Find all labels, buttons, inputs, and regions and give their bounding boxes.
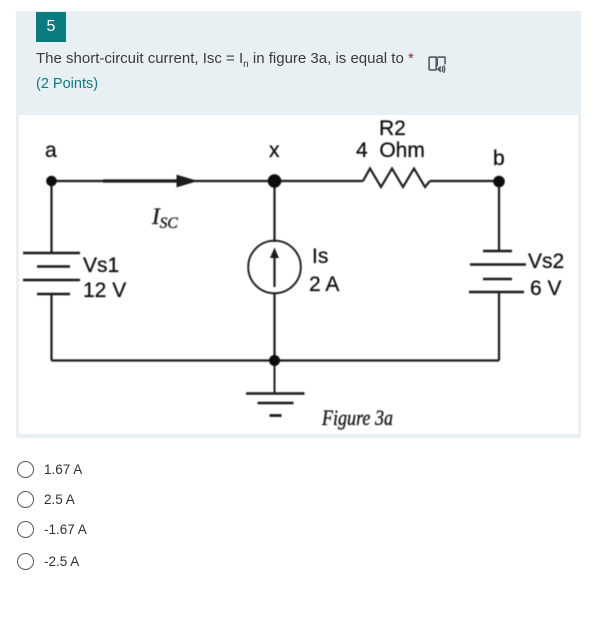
option 1 radio — [17, 461, 517, 478]
current source Is (circle with up arrow) — [248, 241, 301, 294]
svg-text:4 Ohm: 4 Ohm — [356, 139, 425, 162]
svg-text:Vs1: Vs1 — [83, 254, 119, 277]
option 2 radio — [17, 491, 517, 508]
points label — [36, 73, 98, 95]
wire: node b down to Vs2 top — [498, 181, 500, 251]
ground — [246, 361, 305, 416]
option 4 radio — [17, 553, 517, 570]
battery Vs1 — [23, 253, 80, 294]
svg-text:b: b — [493, 147, 505, 170]
figure white box — [19, 115, 578, 434]
question text — [36, 48, 456, 76]
wire: current source bottom to bottom rail — [273, 293, 275, 361]
wire: Vs2 bottom to bottom rail — [498, 292, 500, 361]
battery Vs2 — [469, 251, 526, 292]
wire: node a down to Vs1 top — [50, 181, 52, 253]
svg-text:12 V: 12 V — [83, 279, 126, 302]
svg-text:Is: Is — [312, 245, 328, 268]
svg-text:2 A: 2 A — [309, 273, 339, 296]
svg-text:R2: R2 — [379, 117, 406, 140]
wire: Vs1 bottom to bottom rail — [50, 294, 52, 361]
svg-text:a: a — [45, 139, 57, 162]
immersive reader icon — [427, 55, 447, 75]
node B junction dot — [493, 176, 505, 188]
svg-text:Vs2: Vs2 — [528, 250, 564, 273]
svg-text:x: x — [269, 139, 280, 162]
wire: bottom rail — [52, 359, 500, 361]
wire: top rail from node a to node b — [52, 180, 500, 182]
svg-text:ISC: ISC — [151, 204, 178, 232]
wire: node x down to current source — [273, 181, 275, 242]
question card background — [16, 11, 581, 438]
option 3 radio — [17, 521, 517, 538]
svg-text:Figure 3a: Figure 3a — [321, 405, 393, 430]
ground junction dot — [269, 355, 280, 366]
question number badge 5 — [36, 12, 66, 42]
circuit schematic — [19, 115, 578, 434]
arrow for Isc on top wire — [103, 175, 198, 188]
resistor R2 zigzag — [363, 169, 430, 188]
svg-text:6 V: 6 V — [530, 277, 562, 300]
node A junction dot — [46, 176, 57, 187]
node X junction dot — [268, 174, 282, 188]
